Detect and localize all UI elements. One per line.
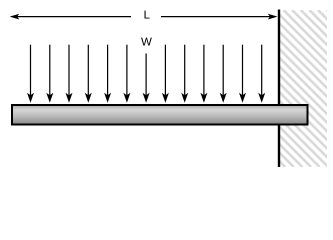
load arrow w1 <box>27 45 34 103</box>
load arrow w8 <box>162 45 169 103</box>
load arrow w3 <box>66 45 73 103</box>
load arrow w13 <box>258 45 265 103</box>
load arrow w12 <box>239 45 246 103</box>
load arrow w7 (shortened under W label) <box>143 54 150 103</box>
dimension line L (right segment) <box>161 16 270 18</box>
load arrow w6 <box>123 45 130 103</box>
load arrow w5 <box>104 45 111 103</box>
label L <box>145 11 150 19</box>
wall hatch region <box>120 10 333 167</box>
load arrow w9 <box>181 45 188 103</box>
load arrow w11 <box>220 45 227 103</box>
dimension line L (left segment) <box>17 16 131 18</box>
beam <box>12 105 308 125</box>
load arrow w4 <box>85 45 92 103</box>
load arrow w10 <box>200 45 207 103</box>
load arrow w2 <box>46 45 53 103</box>
wall face line <box>278 10 280 168</box>
dimension arrowhead right <box>268 14 278 20</box>
label W <box>141 38 152 46</box>
dimension arrowhead left <box>10 14 20 20</box>
